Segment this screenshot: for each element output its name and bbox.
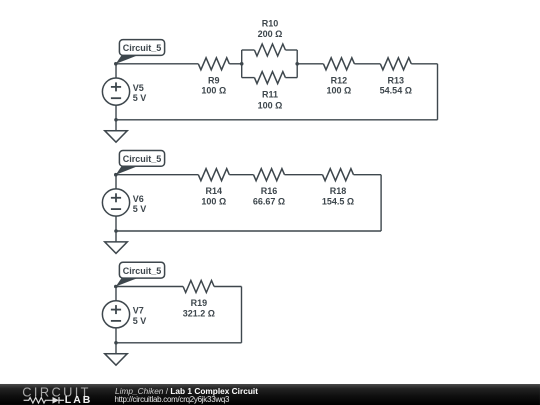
- ground: [105, 120, 128, 142]
- wire R16 to R18: [285, 174, 323, 176]
- svg-text:100 Ω: 100 Ω: [327, 86, 352, 96]
- voltage source V6: [102, 189, 129, 216]
- wire R19 to right edge: [214, 285, 241, 287]
- footer text line 2: [114, 396, 229, 404]
- wire node to V6 top: [115, 175, 117, 189]
- svg-text:LAB: LAB: [65, 394, 93, 405]
- svg-text:R10: R10: [262, 19, 279, 29]
- voltage source V7: [102, 301, 129, 328]
- svg-text:Circuit_5: Circuit_5: [123, 266, 162, 276]
- wire R13 to right edge: [411, 63, 437, 65]
- ground: [105, 343, 128, 365]
- node bottom junction: [114, 341, 118, 345]
- svg-text:66.67 Ω: 66.67 Ω: [253, 197, 285, 207]
- wire V6 bottom to rail: [115, 216, 117, 231]
- wire V5 node to R9: [116, 63, 198, 65]
- logo squiggle: wire, resistor, diode: [24, 397, 53, 403]
- footer bar: [0, 384, 540, 405]
- svg-text:R13: R13: [388, 75, 405, 85]
- wire bottom return: [116, 230, 381, 232]
- wire node to V7 top: [115, 286, 117, 300]
- node Circuit_5: [114, 173, 118, 177]
- svg-text:100 Ω: 100 Ω: [258, 100, 283, 110]
- svg-text:5 V: 5 V: [133, 93, 147, 103]
- resistor R12 zigzag: [323, 58, 354, 70]
- net label Circuit_5 flag: [116, 262, 165, 286]
- resistor R9 zigzag: [198, 58, 229, 70]
- svg-text:200 Ω: 200 Ω: [258, 29, 283, 39]
- wire node to V5 top: [115, 64, 117, 78]
- voltage source V5: [102, 78, 129, 105]
- resistor R10 zigzag: [254, 44, 285, 56]
- svg-text:R19: R19: [191, 298, 208, 308]
- node Circuit_5: [114, 285, 118, 289]
- wire top branch left: [242, 49, 255, 51]
- ground: [105, 231, 128, 253]
- svg-text:154.5 Ω: 154.5 Ω: [322, 197, 354, 207]
- wire R9 to parallel block: [229, 63, 241, 65]
- CircuitLab logo: [0, 384, 110, 405]
- wire right edge down: [437, 64, 439, 120]
- wire R14 to R16: [229, 174, 253, 176]
- wire right edge down: [240, 286, 242, 342]
- wire R12 to R13: [354, 63, 380, 65]
- wire bottom branch left: [242, 77, 255, 79]
- svg-text:54.54 Ω: 54.54 Ω: [380, 86, 412, 96]
- wire V7 node to R19: [116, 285, 183, 287]
- resistor R14 zigzag: [198, 169, 229, 181]
- wire right edge down: [380, 175, 382, 231]
- node bottom junction: [114, 229, 118, 233]
- svg-text:R11: R11: [262, 89, 278, 99]
- svg-text:V5: V5: [133, 83, 144, 93]
- svg-text:R18: R18: [330, 186, 347, 196]
- resistor R16 zigzag: [254, 169, 285, 181]
- svg-text:R9: R9: [208, 75, 220, 85]
- svg-text:Circuit_5: Circuit_5: [123, 43, 162, 53]
- footer text line 1: [115, 387, 258, 396]
- node parallel left junction: [240, 62, 244, 66]
- svg-text:100 Ω: 100 Ω: [201, 86, 226, 96]
- svg-text:R14: R14: [206, 186, 223, 196]
- svg-text:Circuit_5: Circuit_5: [123, 154, 162, 164]
- node Circuit_5: [114, 62, 118, 66]
- wire top branch right: [285, 49, 297, 51]
- wire V7 bottom to rail: [115, 328, 117, 343]
- wire bottom return: [116, 119, 438, 121]
- net label Circuit_5 flag: [116, 150, 165, 174]
- wire V5 bottom to rail: [115, 105, 117, 120]
- resistor R18 zigzag: [323, 169, 354, 181]
- resistor R13 zigzag: [380, 58, 411, 70]
- net label Circuit_5 flag: [116, 40, 165, 64]
- wire junction to R12: [297, 63, 323, 65]
- wire V6 node to R14: [116, 174, 198, 176]
- resistor R19 zigzag: [183, 280, 214, 292]
- wire parallel right vertical: [296, 50, 298, 78]
- resistor R11 zigzag: [254, 72, 285, 84]
- svg-text:R12: R12: [331, 75, 348, 85]
- svg-text:V6: V6: [133, 194, 144, 204]
- wire R18 to right edge: [354, 174, 382, 176]
- svg-text:5 V: 5 V: [133, 316, 147, 326]
- wire bottom return: [116, 342, 242, 344]
- wire parallel left vertical: [241, 50, 243, 78]
- node bottom junction: [114, 118, 118, 122]
- svg-text:R16: R16: [261, 186, 278, 196]
- wire bottom branch right: [285, 77, 297, 79]
- node parallel right junction: [295, 62, 299, 66]
- svg-text:100 Ω: 100 Ω: [201, 197, 226, 207]
- svg-text:V7: V7: [133, 306, 144, 316]
- svg-text:321.2 Ω: 321.2 Ω: [183, 308, 215, 318]
- svg-text:5 V: 5 V: [133, 204, 147, 214]
